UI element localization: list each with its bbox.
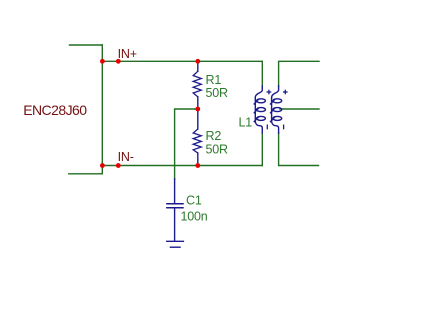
svg-text:100n: 100n [181, 210, 208, 224]
transformer L1 primary winding [254, 86, 265, 133]
wire L1 secondary bottom [279, 133, 319, 166]
wire IN+ net [102, 60, 262, 62]
resistor R2 [193, 109, 201, 166]
L1 secondary polarity plus [284, 90, 287, 93]
junction dot R1 top [195, 59, 200, 64]
transformer L1 secondary winding [271, 86, 282, 133]
L1 primary polarity plus [267, 90, 270, 93]
L1 secondary polarity minus tick [283, 125, 285, 129]
junction dot IN+ label [116, 59, 121, 64]
junction dot IN+ left [100, 59, 105, 64]
wire top-left pin stub [70, 44, 103, 46]
svg-text:IN+: IN+ [118, 47, 137, 61]
wire left vertical bus [101, 45, 103, 174]
svg-text:ENC28J60: ENC28J60 [23, 102, 87, 118]
wire IN- net [102, 165, 262, 167]
svg-text:IN-: IN- [118, 150, 134, 164]
capacitor C1 [167, 179, 183, 241]
L1 primary polarity minus tick [266, 125, 268, 129]
svg-text:C1: C1 [186, 194, 202, 208]
wire L1 secondary top [279, 61, 319, 86]
svg-text:50R: 50R [206, 86, 229, 100]
wire bottom-left pin stub [69, 173, 103, 175]
wire IN+ to L1 primary top [261, 61, 263, 86]
resistor R1 [193, 61, 201, 109]
wire R1 R2 midpoint to C1 [175, 109, 198, 179]
wire L1 secondary center tap [280, 108, 319, 110]
junction dot R1 R2 midpoint [195, 107, 200, 112]
svg-text:L1: L1 [239, 115, 253, 129]
wire IN- to L1 primary bottom [261, 133, 263, 166]
junction dot IN- label [116, 163, 121, 168]
svg-text:50R: 50R [206, 142, 229, 156]
ground [167, 241, 184, 247]
junction dot R2 bottom [195, 163, 200, 168]
svg-text:R2: R2 [206, 129, 222, 143]
junction dot IN- left [100, 163, 105, 168]
